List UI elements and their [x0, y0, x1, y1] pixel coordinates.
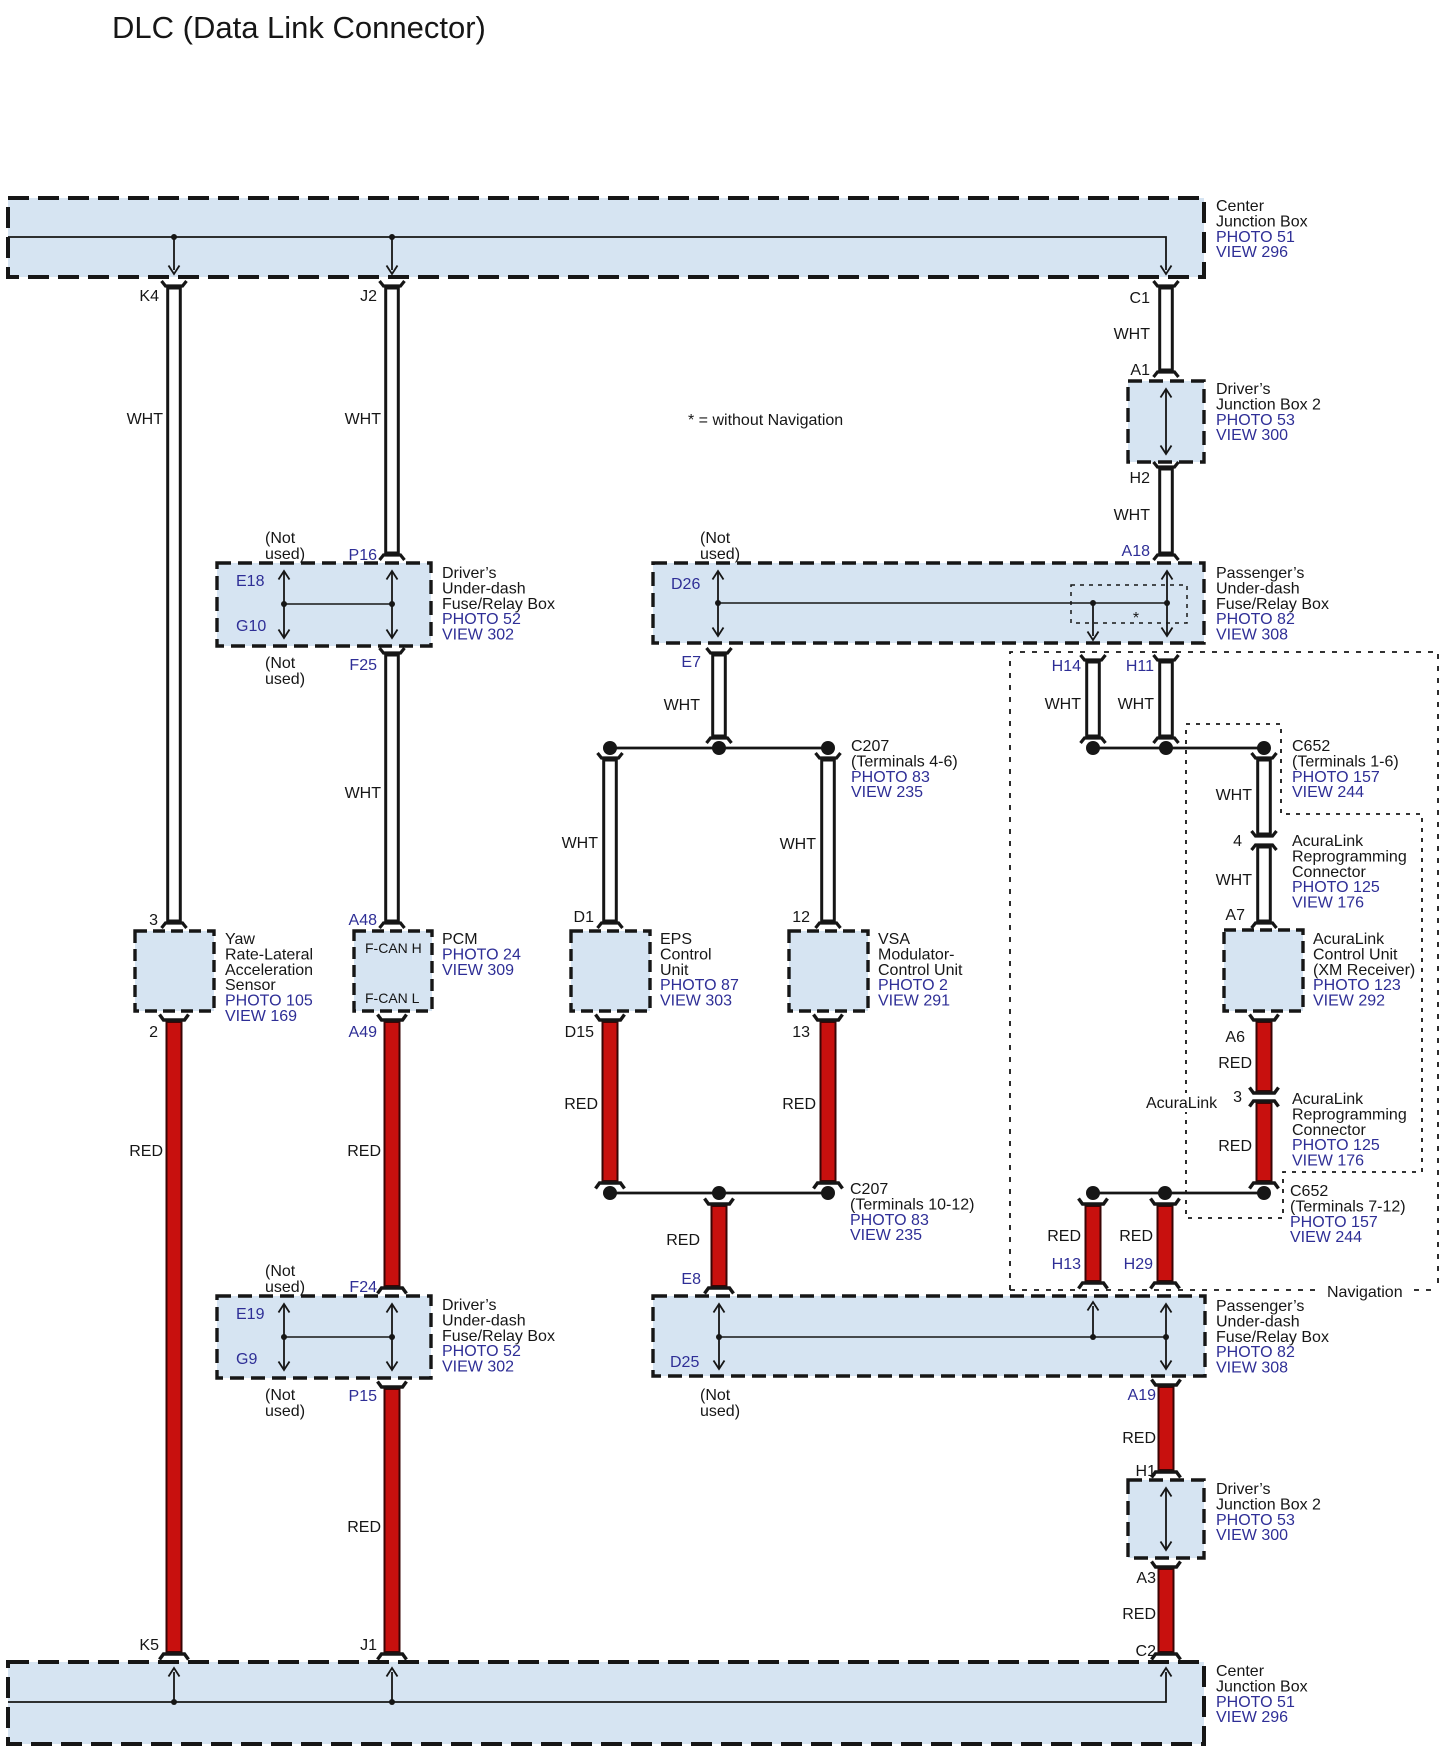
svg-text:WHT: WHT	[1114, 507, 1151, 524]
node K5 tap in bottom box	[171, 1699, 177, 1705]
svg-text:VIEW 244: VIEW 244	[1292, 784, 1364, 801]
svg-text:VIEW 302: VIEW 302	[442, 627, 514, 644]
component: EPS Control Unit	[571, 931, 650, 1011]
svg-text:WHT: WHT	[1114, 326, 1151, 343]
wire RED (yaw sensor 2 to K5)	[167, 1022, 182, 1652]
component: PCM	[354, 931, 432, 1011]
svg-text:3: 3	[1233, 1089, 1242, 1106]
without-navigation dotted outline	[1186, 724, 1422, 1218]
svg-text:RED: RED	[666, 1232, 700, 1249]
wire RED (P15 to J1)	[385, 1389, 400, 1652]
wire RED E8 (C207 to lower passenger fuse box)	[712, 1206, 727, 1286]
arrow A18-H11 (upper passenger fuse box)	[1166, 571, 1168, 636]
svg-text:2: 2	[149, 1024, 158, 1041]
link line inside upper driver fuse box	[284, 603, 392, 605]
svg-text:(Not: (Not	[265, 1263, 296, 1280]
svg-text:VIEW 292: VIEW 292	[1313, 993, 1385, 1010]
svg-text:E7: E7	[681, 654, 701, 671]
svg-text:used): used)	[700, 546, 740, 563]
svg-text:DLC (Data Link Connector): DLC (Data Link Connector)	[112, 10, 486, 45]
svg-text:VIEW 235: VIEW 235	[850, 1227, 922, 1244]
svg-text:F-CAN L: F-CAN L	[365, 990, 420, 1006]
svg-text:H29: H29	[1124, 1256, 1153, 1273]
svg-text:H14: H14	[1052, 658, 1081, 675]
svg-text:WHT: WHT	[664, 697, 701, 714]
wire H11 WHT	[1160, 662, 1173, 736]
junction line C207 terminals 10-12	[610, 1192, 828, 1195]
arrow H13 riser (lower passenger fuse box)	[1092, 1306, 1094, 1337]
svg-text:WHT: WHT	[345, 411, 382, 428]
arrow D26 (upper passenger fuse box)	[717, 571, 719, 636]
svg-text:12: 12	[792, 909, 810, 926]
svg-text:WHT: WHT	[780, 836, 817, 853]
svg-text:G10: G10	[236, 618, 266, 635]
wire F25-A48 WHT (fuse box to PCM)	[386, 655, 399, 921]
arrow inside Driver's Junction Box 2 (bottom)	[1165, 1488, 1167, 1550]
node C207-4	[603, 741, 617, 755]
svg-text:J1: J1	[360, 1637, 377, 1654]
svg-text:C2: C2	[1136, 1643, 1157, 1660]
svg-text:VIEW 176: VIEW 176	[1292, 1153, 1364, 1170]
svg-text:VIEW 176: VIEW 176	[1292, 895, 1364, 912]
fuse box: Passenger's Under-dash Fuse/Relay Box (lower)	[653, 1296, 1205, 1376]
wire E7 WHT (passenger fuse box to C207)	[713, 655, 726, 736]
svg-text:RED: RED	[782, 1096, 816, 1113]
svg-text:E19: E19	[236, 1306, 265, 1323]
svg-text:(Not: (Not	[265, 655, 296, 672]
node C207-12	[821, 1186, 835, 1200]
node C652-7	[1086, 1186, 1100, 1200]
svg-text:F-CAN H: F-CAN H	[365, 940, 422, 956]
svg-text:VIEW 300: VIEW 300	[1216, 1527, 1288, 1544]
svg-text:D15: D15	[565, 1024, 594, 1041]
node C652-1	[1086, 741, 1100, 755]
svg-text:* = without Navigation: * = without Navigation	[688, 412, 843, 429]
svg-text:VIEW 296: VIEW 296	[1216, 1709, 1288, 1726]
junction box: Center Junction Box (top)	[8, 198, 1204, 277]
svg-text:K4: K4	[139, 288, 159, 305]
svg-text:A19: A19	[1128, 1387, 1157, 1404]
svg-text:RED: RED	[1122, 1430, 1156, 1447]
svg-text:A1: A1	[1130, 362, 1150, 379]
svg-text:13: 13	[792, 1024, 810, 1041]
arrow E8-D25 (lower passenger fuse box)	[718, 1304, 720, 1369]
svg-text:WHT: WHT	[562, 835, 599, 852]
svg-text:C1: C1	[1130, 290, 1151, 307]
svg-text:A18: A18	[1122, 543, 1151, 560]
wire J2 WHT upper (top box to P16)	[386, 288, 399, 553]
svg-text:D1: D1	[574, 909, 595, 926]
svg-text:VIEW 169: VIEW 169	[225, 1008, 297, 1025]
svg-text:RED: RED	[1218, 1055, 1252, 1072]
svg-text:(Not: (Not	[265, 1387, 296, 1404]
wire RED A6 (AcuraLink CU to reprogramming connector pin 3)	[1257, 1022, 1272, 1091]
node J1 tap in bottom box	[389, 1699, 395, 1705]
svg-text:RED: RED	[1047, 1228, 1081, 1245]
label AcuraLink	[1143, 1093, 1216, 1112]
svg-text:used): used)	[265, 1403, 305, 1420]
svg-text:H13: H13	[1052, 1256, 1081, 1273]
svg-text:3: 3	[149, 912, 158, 929]
node C652-2	[1159, 741, 1173, 755]
node C207-5	[712, 741, 726, 755]
wire K4 WHT (top box to yaw sensor)	[168, 288, 181, 921]
svg-text:(Not: (Not	[265, 530, 296, 547]
svg-text:RED: RED	[1122, 1606, 1156, 1623]
wire RED H29	[1158, 1206, 1173, 1281]
svg-text:A3: A3	[1136, 1570, 1156, 1587]
component: VSA Modulator-Control Unit	[789, 931, 868, 1011]
svg-text:WHT: WHT	[127, 411, 164, 428]
svg-text:RED: RED	[347, 1143, 381, 1160]
junction line C652 terminals 1-6	[1093, 747, 1264, 750]
arrow inside Driver's Junction Box 2 (top)	[1165, 389, 1167, 454]
arrow E18-G10 (upper driver fuse box)	[283, 571, 285, 638]
junction box: Center Junction Box (bottom)	[8, 1662, 1204, 1744]
fuse box: Driver's Under-dash Fuse/Relay Box (lower)	[217, 1296, 431, 1378]
svg-text:used): used)	[265, 546, 305, 563]
wire RED A19-H1 (passenger fuse box to DJB2)	[1159, 1387, 1174, 1470]
svg-text:P15: P15	[349, 1388, 378, 1405]
fuse box: Passenger's Under-dash Fuse/Relay Box (upper)	[653, 563, 1204, 643]
node C652-8	[1158, 1186, 1172, 1200]
junction line C652 terminals 7-12	[1093, 1192, 1264, 1195]
bus line inside bottom junction box	[8, 1672, 1166, 1702]
junction box: Driver's Junction Box 2 (top)	[1128, 381, 1204, 462]
component: AcuraLink Control Unit (XM Receiver)	[1224, 930, 1303, 1011]
arrow H29-A19 (lower passenger fuse box)	[1165, 1304, 1167, 1369]
svg-text:J2: J2	[360, 288, 377, 305]
arrow F24-P15 (lower driver fuse box)	[391, 1304, 393, 1370]
inner dotted box (* without navigation) in upper passenger fuse box	[1071, 585, 1187, 623]
svg-text:A7: A7	[1225, 907, 1245, 924]
svg-text:WHT: WHT	[1216, 872, 1253, 889]
wire RED 13 (VSA to C207 terminals 10-12)	[821, 1022, 836, 1181]
svg-text:VIEW 303: VIEW 303	[660, 993, 732, 1010]
wire WHT lower (reprogramming connector to A7)	[1258, 847, 1271, 921]
svg-text:P16: P16	[349, 547, 378, 564]
node C207-6	[821, 741, 835, 755]
svg-text:4: 4	[1233, 833, 1242, 850]
svg-text:RED: RED	[1218, 1138, 1252, 1155]
node C207-10	[603, 1186, 617, 1200]
svg-text:F24: F24	[349, 1279, 377, 1296]
svg-text:VIEW 308: VIEW 308	[1216, 1360, 1288, 1377]
wire RED (PCM A49 to F24)	[385, 1022, 400, 1286]
component: Yaw Rate-Lateral Acceleration Sensor	[135, 931, 214, 1011]
svg-text:WHT: WHT	[1045, 696, 1082, 713]
link line inside lower driver fuse box	[284, 1336, 392, 1338]
svg-text:E8: E8	[681, 1271, 701, 1288]
link line inside upper passenger fuse box	[718, 602, 1167, 604]
svg-text:RED: RED	[129, 1143, 163, 1160]
svg-text:D26: D26	[671, 576, 700, 593]
svg-text:RED: RED	[1119, 1228, 1153, 1245]
svg-text:used): used)	[700, 1403, 740, 1420]
svg-text:VIEW 235: VIEW 235	[851, 784, 923, 801]
svg-text:WHT: WHT	[1118, 696, 1155, 713]
wire 12 WHT (C207 to VSA)	[822, 760, 835, 921]
svg-text:A6: A6	[1225, 1029, 1245, 1046]
svg-text:WHT: WHT	[1216, 787, 1253, 804]
svg-text:VIEW 308: VIEW 308	[1216, 627, 1288, 644]
link line inside lower passenger fuse box	[719, 1336, 1166, 1338]
wire RED D15 (EPS to C207 terminals 10-12)	[603, 1022, 618, 1181]
junction box: Driver's Junction Box 2 (bottom)	[1128, 1480, 1204, 1558]
svg-text:H11: H11	[1126, 658, 1154, 675]
arrow E19-G9 (lower driver fuse box)	[283, 1304, 285, 1370]
node C207-11	[712, 1186, 726, 1200]
svg-text:A48: A48	[349, 912, 378, 929]
svg-text:A49: A49	[349, 1024, 378, 1041]
wire C652 WHT upper (to reprogramming connector pin 4)	[1258, 760, 1271, 834]
wire H14 WHT	[1087, 662, 1100, 736]
svg-text:(Not: (Not	[700, 1387, 731, 1404]
svg-text:used): used)	[265, 1279, 305, 1296]
node C652-9	[1257, 1186, 1271, 1200]
navigation dashed outline	[1010, 652, 1438, 1290]
svg-text:H2: H2	[1130, 470, 1151, 487]
svg-text:(Not: (Not	[700, 530, 731, 547]
arrow P16-F25 (upper driver fuse box)	[391, 571, 393, 638]
bus line inside top junction box	[8, 237, 1166, 270]
svg-text:WHT: WHT	[345, 785, 382, 802]
svg-text:Navigation: Navigation	[1327, 1284, 1403, 1301]
svg-text:K5: K5	[139, 1637, 159, 1654]
svg-text:VIEW 302: VIEW 302	[442, 1359, 514, 1376]
node J2 tap in top box	[389, 234, 395, 240]
svg-text:VIEW 296: VIEW 296	[1216, 244, 1288, 261]
junction line C207 terminals 4-6	[610, 747, 828, 750]
svg-text:used): used)	[265, 671, 305, 688]
wire D1 WHT (C207 to EPS)	[604, 760, 617, 921]
node K4 tap in top box	[171, 234, 177, 240]
svg-text:VIEW 300: VIEW 300	[1216, 427, 1288, 444]
svg-text:E18: E18	[236, 573, 265, 590]
svg-text:VIEW 309: VIEW 309	[442, 962, 514, 979]
wire RED A3-C2 (DJB2 to bottom box)	[1159, 1569, 1174, 1652]
svg-text:D25: D25	[670, 1354, 699, 1371]
svg-text:VIEW 244: VIEW 244	[1290, 1229, 1362, 1246]
wire C1-A1 WHT (top box to DJB2)	[1160, 288, 1173, 370]
svg-text:RED: RED	[347, 1519, 381, 1536]
svg-text:VIEW 291: VIEW 291	[878, 993, 950, 1010]
svg-text:*: *	[1133, 610, 1139, 627]
wire RED (reprogramming connector to C652 terminals 7-12)	[1257, 1103, 1272, 1181]
node C652-3	[1257, 741, 1271, 755]
svg-text:AcuraLink: AcuraLink	[1146, 1095, 1218, 1112]
svg-text:F25: F25	[349, 657, 377, 674]
arrow H14 drop (upper passenger fuse box)	[1092, 603, 1094, 636]
svg-text:H1: H1	[1136, 1463, 1157, 1480]
svg-text:G9: G9	[236, 1351, 257, 1368]
wire RED H13	[1086, 1206, 1101, 1281]
svg-text:RED: RED	[564, 1096, 598, 1113]
wire H2-A18 WHT (DJB2 to passenger fuse box)	[1160, 469, 1173, 553]
fuse box: Driver's Under-dash Fuse/Relay Box (upper)	[217, 563, 431, 646]
